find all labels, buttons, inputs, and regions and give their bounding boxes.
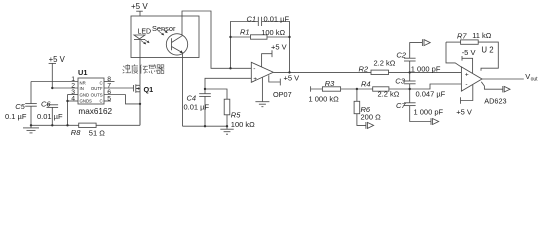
svg-text:R1: R1 xyxy=(240,28,250,37)
svg-text:100 kΩ: 100 kΩ xyxy=(231,120,255,129)
svg-text:+5 V: +5 V xyxy=(49,55,66,64)
svg-text:C7: C7 xyxy=(396,101,406,110)
svg-text:2.2 kΩ: 2.2 kΩ xyxy=(378,89,400,98)
svg-text:U 2: U 2 xyxy=(481,45,493,54)
svg-text:-: - xyxy=(465,81,467,88)
svg-text:V: V xyxy=(525,72,530,81)
svg-text:+5 V: +5 V xyxy=(456,107,472,116)
svg-text:Sensor: Sensor xyxy=(152,24,176,33)
svg-text:R4: R4 xyxy=(361,79,371,88)
svg-text:AD623: AD623 xyxy=(484,96,506,105)
svg-text:-5 V: -5 V xyxy=(462,48,476,57)
svg-text:R7: R7 xyxy=(457,32,467,41)
svg-text:GND: GND xyxy=(80,92,90,97)
svg-text:4: 4 xyxy=(71,95,75,102)
svg-text:-: - xyxy=(253,66,255,73)
svg-text:IN: IN xyxy=(80,86,84,91)
svg-text:0.01 µF: 0.01 µF xyxy=(264,14,290,23)
svg-text:+: + xyxy=(465,72,469,79)
svg-text:0.1 µF: 0.1 µF xyxy=(5,112,27,121)
svg-text:C3: C3 xyxy=(395,77,405,86)
svg-text:C5: C5 xyxy=(15,102,25,111)
svg-text:C2: C2 xyxy=(396,50,406,59)
svg-text:C: C xyxy=(99,99,102,104)
svg-text:C6: C6 xyxy=(41,99,51,108)
svg-text:R8: R8 xyxy=(71,128,81,137)
svg-text:OP07: OP07 xyxy=(273,90,292,99)
svg-text:1 000 pF: 1 000 pF xyxy=(411,64,441,73)
svg-text:+: + xyxy=(253,76,257,83)
svg-text:R5: R5 xyxy=(231,111,241,120)
svg-text:C4: C4 xyxy=(187,94,197,103)
svg-text:R3: R3 xyxy=(325,79,335,88)
svg-text:1 000 kΩ: 1 000 kΩ xyxy=(309,94,340,103)
svg-text:U1: U1 xyxy=(78,68,87,77)
svg-text:C1: C1 xyxy=(247,14,257,23)
svg-text:+5 V: +5 V xyxy=(131,2,148,11)
svg-text:0.047 µF: 0.047 µF xyxy=(416,90,446,99)
svg-text:0.01 µF: 0.01 µF xyxy=(37,112,63,121)
svg-text:51 Ω: 51 Ω xyxy=(89,129,105,138)
svg-text:11 kΩ: 11 kΩ xyxy=(472,31,492,40)
svg-text:2.2 kΩ: 2.2 kΩ xyxy=(374,58,396,67)
svg-text:Q1: Q1 xyxy=(144,85,154,94)
svg-text:GNDS: GNDS xyxy=(80,99,93,104)
svg-text:NR: NR xyxy=(80,80,86,85)
svg-text:OUTS: OUTS xyxy=(91,92,103,97)
svg-text:0.01 µF: 0.01 µF xyxy=(184,103,210,112)
svg-text:OUTF: OUTF xyxy=(91,86,103,91)
svg-text:1 000 pF: 1 000 pF xyxy=(414,107,444,116)
svg-text:LED: LED xyxy=(138,28,152,35)
svg-text:200 Ω: 200 Ω xyxy=(361,113,382,122)
svg-text:C: C xyxy=(99,80,102,85)
svg-text:+5 V: +5 V xyxy=(284,73,300,82)
svg-text:max6162: max6162 xyxy=(78,107,112,116)
svg-text:out: out xyxy=(531,76,539,82)
svg-text:5: 5 xyxy=(107,95,111,102)
svg-text:100 kΩ: 100 kΩ xyxy=(261,28,285,37)
svg-text:R2: R2 xyxy=(359,65,369,74)
svg-text:+5 V: +5 V xyxy=(271,42,287,51)
